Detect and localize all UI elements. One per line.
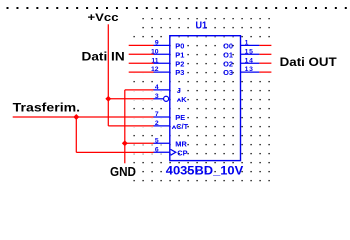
wire data in bit3 to pin 12 (129, 71, 154, 73)
wire Trasferim branch vertical (75, 117, 77, 152)
wire CP horizontal to pin 6 (76, 151, 153, 153)
wire Trasferim horizontal to pin 7 PE (13, 116, 154, 118)
svg-text:PE: PE (175, 113, 185, 122)
svg-text:J: J (177, 86, 181, 95)
svg-text:P0: P0 (175, 42, 184, 51)
svg-text:MR: MR (175, 139, 187, 148)
svg-text:14: 14 (245, 57, 254, 64)
svg-text:O0: O0 (223, 42, 233, 51)
pin 12 P3 (151, 66, 184, 77)
svg-text:7: 7 (155, 111, 159, 118)
wire J-MR-GND vertical (124, 90, 126, 163)
svg-text:2: 2 (155, 120, 159, 127)
pin 1 O0 (223, 40, 259, 51)
pin 15 O1 (223, 48, 259, 59)
svg-text:K: K (181, 95, 187, 104)
wire data in bit0 to pin 9 (129, 44, 154, 46)
svg-text:GND: GND (110, 165, 136, 179)
pin 7 PE (153, 111, 185, 122)
svg-text:Dati OUT: Dati OUT (280, 55, 338, 69)
pin 9 P0 (153, 40, 184, 51)
pin 10 P1 (151, 48, 184, 59)
svg-text:Dati IN: Dati IN (82, 50, 125, 64)
svg-text:U1: U1 (196, 21, 208, 32)
svg-text:4: 4 (155, 84, 159, 91)
wire data out bit2 from pin 14 (259, 62, 271, 64)
wire data in bit1 to pin 10 (129, 53, 154, 55)
junction on +Vcc line at K wire (105, 96, 111, 102)
pin 13 O3 (223, 66, 259, 77)
svg-text:1: 1 (245, 40, 249, 47)
wire MR horizontal to pin 5 (125, 142, 154, 144)
pin 4 J (153, 84, 181, 95)
pin 2 inverted C/T (153, 120, 188, 131)
pin 3 inverted K with bubble (153, 93, 187, 104)
wire data in bit2 to pin 11 (129, 62, 154, 64)
wire data out bit3 from pin 13 (259, 71, 271, 73)
junction on GND line at MR wire (122, 140, 128, 146)
wire K horizontal from +Vcc line to pin 3 (108, 98, 153, 100)
svg-text:O1: O1 (223, 50, 233, 59)
svg-text:O3: O3 (223, 68, 233, 77)
ic U1 4035BD body (170, 36, 241, 161)
svg-text:C/T: C/T (176, 122, 188, 131)
svg-text:5: 5 (155, 137, 159, 144)
svg-text:3: 3 (155, 93, 159, 100)
svg-text:P3: P3 (175, 68, 184, 77)
wire J horizontal to pin 4 (125, 89, 154, 91)
svg-text:15: 15 (245, 48, 254, 55)
pin 14 O2 (223, 57, 259, 68)
junction on Trasferim line (73, 114, 79, 120)
svg-text:P1: P1 (175, 50, 184, 59)
wire data out bit0 from pin 1 (259, 44, 271, 46)
pin 6 CP clock input (153, 146, 187, 157)
wire +Vcc vertical (107, 24, 109, 126)
pin 5 MR (153, 137, 187, 148)
svg-text:4035BD_10V: 4035BD_10V (166, 164, 244, 178)
svg-text:P2: P2 (175, 59, 184, 68)
wire C/T horizontal to pin 2 (108, 125, 153, 127)
svg-text:13: 13 (245, 66, 254, 73)
svg-text:Trasferim.: Trasferim. (13, 101, 80, 115)
svg-text:9: 9 (155, 40, 159, 47)
svg-text:6: 6 (155, 146, 159, 153)
wire data out bit1 from pin 15 (259, 53, 271, 55)
svg-text:O2: O2 (223, 59, 233, 68)
svg-text:+Vcc: +Vcc (88, 12, 119, 24)
pin 11 P2 (151, 57, 184, 68)
svg-text:CP: CP (177, 148, 187, 157)
